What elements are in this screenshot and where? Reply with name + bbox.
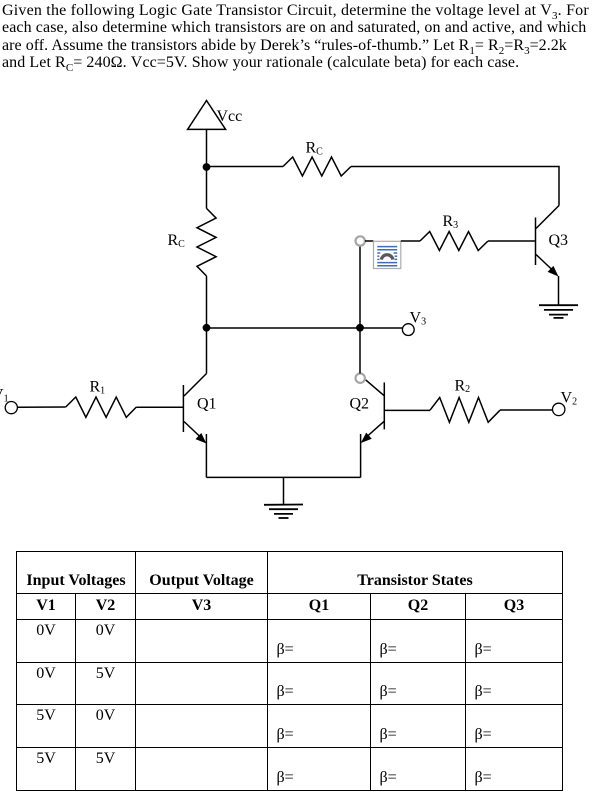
svg-text:V3: V3 [410,310,427,328]
junction node top [203,163,211,171]
wire node down to Rc vertical [206,167,208,208]
wire Q2 emitter down [360,434,362,477]
wire node to Q2 collector circle [359,328,361,374]
wire R2 to V2 [500,409,553,411]
svg-text:R1: R1 [90,379,106,397]
transistor Q1 [183,374,216,444]
problem statement paragraph [2,2,599,72]
table of cases [16,551,563,791]
resistor R1 [66,379,137,418]
wire Q2 base to R2 [384,409,430,411]
power symbol Vcc [188,101,243,130]
wire ground stem [283,477,285,504]
ground (Q3) [539,305,578,318]
junction node right (Q2 collector) [356,324,364,332]
wire Rc vertical to node V3 rail [206,276,208,328]
wire circle to icon [365,240,374,242]
wire Q1 emitter down [205,434,207,477]
svg-text:Q2: Q2 [350,396,370,413]
svg-text:RC: RC [168,232,186,250]
wire Q3 emitter to ground [558,276,560,305]
resistor Rc (horizontal, top) [283,140,351,177]
wire V3 rail [207,327,403,329]
svg-text:R2: R2 [455,377,471,395]
embedded-object placeholder icon [374,241,401,268]
ground (emitters) [264,505,303,519]
svg-text:V2: V2 [561,390,578,408]
node V3 terminal [402,310,426,336]
wire Rc to Q3 collector corner [351,167,559,206]
svg-text:RC: RC [306,140,324,158]
wire Vcc to node [206,129,208,167]
node V2 terminal [553,390,578,416]
svg-text:V1: V1 [0,387,9,405]
node V1 terminal [0,387,17,414]
wire V1 to R1 [17,406,65,408]
wire Q1 collector up to node [206,328,208,374]
node B (gray pin circle, Q2 collector) [356,374,365,383]
resistor R2 [430,377,500,422]
svg-text:Vcc: Vcc [217,108,243,125]
wire node to inverter input circle [359,246,361,328]
transistor Q3 [536,206,569,277]
wire R3 to Q3 base [488,240,536,242]
svg-text:Q3: Q3 [549,232,569,249]
resistor Rc (vertical) [168,208,217,276]
wire node to Rc horizontal [207,166,284,168]
node A (gray pin circle, top) [356,236,365,245]
svg-text:R3: R3 [443,213,459,231]
transistor Q2 [350,380,385,443]
svg-text:Q1: Q1 [197,396,217,413]
wire R1 to Q1 base [136,406,183,408]
junction node left (Q1 collector) [203,324,211,332]
wire icon to R3 [401,240,420,242]
resistor R3 [420,213,488,251]
wire emitter bus [206,476,360,478]
